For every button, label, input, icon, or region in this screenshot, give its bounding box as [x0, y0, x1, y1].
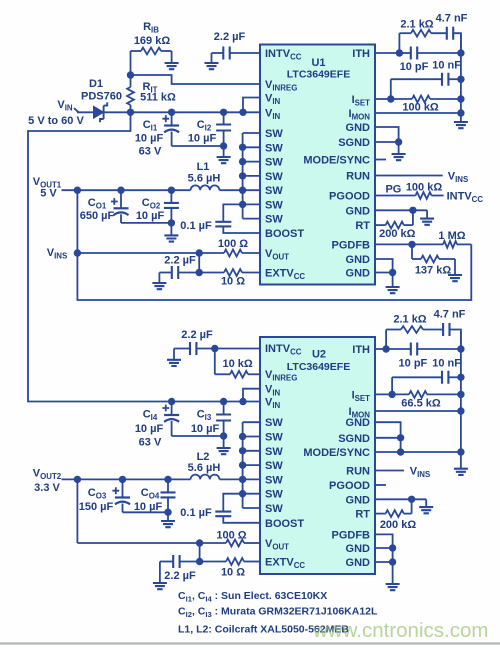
wire RUN U2 — [375, 470, 404, 472]
resistor RIT vertical — [130, 75, 132, 87]
capacitor 10pF — [399, 52, 411, 54]
node CO3 top — [119, 476, 126, 483]
svg-text:D1: D1 — [89, 78, 103, 90]
capacitor 2.2uF extvcc U2 — [160, 561, 174, 563]
SW rail U2 — [242, 422, 244, 508]
capacitor 2.2uF INTVCC U2 — [174, 348, 190, 350]
svg-text:4.7 nF: 4.7 nF — [434, 309, 466, 321]
resistor PG 100k — [375, 195, 416, 197]
capacitor CI4 10uF 63V electrolytic — [171, 402, 173, 415]
resistor RIB 169k — [131, 50, 142, 52]
wire VOUT2 down to VOUT row — [76, 479, 78, 543]
resistor 10k VINREG U2 — [214, 349, 216, 375]
svg-text:511 kΩ: 511 kΩ — [140, 92, 176, 104]
wire node up to RIB — [130, 51, 132, 75]
svg-text:SW: SW — [265, 157, 283, 169]
svg-text:SW: SW — [265, 489, 283, 501]
svg-text:5.6 µH: 5.6 µH — [188, 462, 221, 474]
wire IMON — [375, 112, 461, 114]
node CO1 top — [117, 187, 124, 194]
wire VIN to diode — [77, 111, 94, 113]
ground 2.2uF U2 — [173, 349, 175, 360]
ground comp rail U2 — [460, 452, 462, 469]
node CO gnd U2 — [164, 509, 171, 516]
left VIN drop rail to U2 — [28, 112, 260, 401]
wire CO bottoms — [121, 222, 171, 224]
node CI4 top — [168, 398, 175, 405]
svg-text:SW: SW — [265, 199, 283, 211]
capacitor CO1 650uF electrolytic — [120, 190, 122, 208]
svg-text:ITH: ITH — [352, 344, 370, 356]
capacitor CI2 10uF — [223, 112, 225, 124]
node input cap gnd U2 — [220, 432, 227, 439]
ground input caps — [223, 146, 225, 157]
svg-text:RT: RT — [355, 509, 370, 521]
node GND2 RT U2 — [408, 496, 415, 503]
svg-text:10 µF: 10 µF — [188, 133, 217, 145]
svg-text:BOOST: BOOST — [265, 228, 304, 240]
svg-text:ITH: ITH — [352, 48, 370, 60]
svg-text:10 µF: 10 µF — [135, 133, 164, 145]
ground 2.2uF extvcc U1 — [158, 273, 160, 284]
ground GND2 U1 — [426, 210, 428, 218]
svg-text:SW: SW — [265, 128, 283, 140]
capacitor CI1 10uF 63V electrolytic — [171, 112, 173, 125]
node CI2 top — [220, 109, 227, 116]
svg-text:SW: SW — [265, 432, 283, 444]
svg-text:150 µF: 150 µF — [79, 501, 114, 513]
node CI1 top — [168, 109, 175, 116]
svg-text:10 kΩ: 10 kΩ — [222, 358, 252, 370]
wire GND3 GND4 U1 — [375, 259, 393, 273]
inductor L2 5.6uH — [191, 475, 220, 480]
node CO2 top — [168, 187, 175, 194]
svg-text:SGND: SGND — [338, 137, 370, 149]
svg-text:SW: SW — [265, 503, 283, 515]
wire VIN upper pin step — [243, 98, 260, 113]
node SGND — [395, 138, 402, 145]
svg-text:RT: RT — [355, 220, 370, 232]
svg-text:SW: SW — [265, 171, 283, 183]
svg-text:100 kΩ: 100 kΩ — [402, 102, 439, 114]
svg-text:GND: GND — [346, 205, 371, 217]
svg-text:SW: SW — [265, 474, 283, 486]
svg-text:PDS760: PDS760 — [81, 91, 122, 103]
svg-text:1 MΩ: 1 MΩ — [438, 230, 465, 242]
wire PGDFB U1 — [375, 243, 412, 245]
svg-text:U1: U1 — [311, 57, 325, 69]
svg-text:LTC3649EFE: LTC3649EFE — [287, 69, 350, 81]
svg-text:SGND: SGND — [338, 433, 370, 445]
svg-text:BOOST: BOOST — [265, 518, 304, 530]
svg-text:10 µF: 10 µF — [191, 423, 220, 435]
capacitor 10nF U2 — [392, 376, 442, 378]
VIN input tick — [74, 108, 79, 112]
node PGDFB — [408, 241, 415, 248]
node VIN step U2 — [239, 398, 246, 405]
wire CI4 CI3 bottoms — [172, 435, 224, 437]
svg-text:GND: GND — [346, 254, 371, 266]
resistor 137k — [411, 244, 413, 259]
svg-text:GND: GND — [346, 417, 371, 429]
wire CI1 CI2 bottoms — [172, 145, 224, 147]
comp rail U1 — [460, 33, 462, 113]
svg-text:MODE/SYNC: MODE/SYNC — [303, 447, 370, 459]
capacitor CO2 10uF — [170, 190, 172, 203]
wire diode to VIN node — [104, 111, 131, 113]
node INTVCC U2 — [211, 345, 218, 352]
ground GND2 U2 — [425, 499, 427, 507]
svg-text:SW: SW — [265, 446, 283, 458]
node EXTVCC U2 — [196, 558, 203, 565]
svg-text:SW: SW — [265, 185, 283, 197]
wire VOUT row U2 — [77, 542, 199, 544]
svg-text:63 V: 63 V — [139, 437, 162, 449]
comp rail U2 — [460, 331, 462, 452]
svg-text:4.7 nF: 4.7 nF — [436, 13, 468, 25]
ground SGND U1 — [398, 142, 400, 154]
svg-text:SW: SW — [265, 142, 283, 154]
wire GND3 U2 — [375, 547, 393, 549]
svg-text:GND: GND — [346, 494, 371, 506]
ground GND4 U1 — [392, 273, 394, 288]
svg-text:137 kΩ: 137 kΩ — [415, 265, 452, 277]
node VOUT1 sense — [74, 187, 81, 194]
svg-text:3.3 V: 3.3 V — [34, 482, 60, 494]
wire MODE row U2 — [375, 451, 461, 453]
capacitor 10pF U2 — [386, 348, 411, 350]
svg-text:10 Ω: 10 Ω — [221, 567, 245, 579]
ground output caps U1 — [170, 223, 172, 236]
svg-text:PGOOD: PGOOD — [329, 191, 370, 203]
ground comp rail U1 — [460, 113, 462, 122]
node MODE U2 — [397, 448, 404, 455]
capacitor 2.2uF INTVCC U1 — [212, 52, 224, 54]
resistor 10 ohm U2 — [200, 561, 226, 563]
svg-text:2.2 µF: 2.2 µF — [164, 255, 196, 267]
svg-text:10 µF: 10 µF — [136, 210, 165, 222]
resistor 100k ISET U1 — [391, 98, 412, 100]
node VINS 100ohm — [196, 249, 203, 256]
stub PGOOD U2 — [375, 484, 386, 486]
svg-text:RUN: RUN — [346, 466, 370, 478]
resistor RT 200k U2 — [375, 513, 386, 515]
wire VIN upper pin step U2 — [243, 389, 260, 402]
node ITH U2 — [382, 345, 389, 352]
svg-text:100 kΩ: 100 kΩ — [406, 182, 443, 194]
wire RUN U1 — [375, 175, 443, 177]
svg-text:2.2 µF: 2.2 µF — [181, 329, 213, 341]
svg-text:SW: SW — [265, 460, 283, 472]
node VOUT 100ohm U2 — [196, 539, 203, 546]
wire GND4 U2 — [375, 561, 393, 563]
svg-text:66.5 kΩ: 66.5 kΩ — [401, 398, 441, 410]
node CO4 top — [164, 476, 171, 483]
svg-text:10 pF: 10 pF — [399, 358, 428, 370]
capacitor CO4 10uF — [167, 479, 169, 492]
node R divider — [127, 71, 134, 78]
wire ISET — [375, 98, 391, 100]
wire GND2 U2 — [375, 498, 426, 500]
wire VINREG from divider — [131, 75, 261, 84]
ground input caps U2 — [223, 436, 225, 448]
capacitor 2.2uF extvcc U1 — [159, 272, 171, 274]
svg-text:650 µF: 650 µF — [80, 210, 115, 222]
node ITH — [396, 49, 403, 56]
node ISET U2 — [388, 391, 395, 398]
ground 137k — [454, 259, 456, 275]
capacitor 10nF U1 — [391, 78, 443, 80]
svg-text:5.6 µH: 5.6 µH — [188, 173, 221, 185]
resistor RT 200k U1 — [386, 222, 404, 229]
svg-text:5 V: 5 V — [40, 188, 57, 200]
wire GND2 U1 — [375, 209, 427, 211]
resistor 2.1k + cap 4.7nF branch U2 — [385, 330, 387, 350]
capacitor CI3 10uF — [223, 402, 225, 415]
svg-text:GND: GND — [346, 557, 371, 569]
node VOUT2 sense — [74, 476, 81, 483]
svg-text:www.cntronics.com: www.cntronics.com — [312, 619, 488, 642]
node CI3 top — [220, 398, 227, 405]
svg-text:MODE/SYNC: MODE/SYNC — [303, 155, 370, 167]
svg-text:U2: U2 — [312, 349, 326, 361]
IC U1 LTC3649EFE body — [260, 45, 375, 285]
resistor 2.1k + cap 4.7nF branch U1 — [398, 33, 400, 53]
svg-text:100 Ω: 100 Ω — [216, 530, 246, 542]
VOUT1 rail — [62, 189, 191, 191]
resistor 1M — [412, 243, 443, 245]
feedback loop wire to VINS — [77, 244, 471, 300]
ground 2.2uF extvcc U2 — [159, 562, 161, 584]
resistor 10 ohm U1 — [199, 272, 224, 274]
resistor 100 ohm U2 — [200, 542, 226, 544]
node MODE rail U2 — [457, 448, 464, 455]
node VIN — [127, 109, 134, 116]
svg-text:10 µF: 10 µF — [134, 501, 163, 513]
svg-text:PG: PG — [385, 184, 401, 196]
svg-text:2.1 kΩ: 2.1 kΩ — [400, 19, 433, 31]
wire PGDFB U2 — [375, 534, 393, 548]
bottom edge line — [0, 642, 500, 644]
wire ITH U2 — [375, 348, 386, 350]
svg-text:L1: L1 — [197, 161, 210, 173]
svg-text:PGDFB: PGDFB — [332, 529, 371, 541]
svg-text:10 nF: 10 nF — [432, 358, 461, 370]
svg-text:GND: GND — [346, 268, 371, 280]
svg-text:10 nF: 10 nF — [432, 60, 461, 72]
wire GND SGND U2 — [375, 422, 401, 438]
resistor 66.5k U2 — [392, 393, 409, 395]
resistor 100 ohm U1 — [199, 252, 224, 254]
SW rail U1 — [242, 133, 244, 219]
svg-text:2.2 µF: 2.2 µF — [164, 570, 196, 582]
ground output caps U2 — [167, 512, 169, 521]
capacitor 0.1uF boost U2 — [215, 512, 231, 517]
svg-text:10 pF: 10 pF — [400, 61, 429, 73]
svg-text:2.1 kΩ: 2.1 kΩ — [393, 314, 426, 326]
svg-text:PGDFB: PGDFB — [332, 239, 371, 251]
node EXTVCC U1 — [196, 269, 203, 276]
svg-text:200 kΩ: 200 kΩ — [380, 519, 417, 531]
node CO ground — [168, 219, 175, 226]
node ISET — [387, 95, 394, 102]
svg-text:GND: GND — [346, 543, 371, 555]
svg-text:CI1​, CI4​ : Sun Elect. 63CE10: CI1​, CI4​ : Sun Elect. 63CE10KX — [178, 590, 327, 604]
node GND3 U2 — [389, 544, 396, 551]
stub MODE/SYNC U1 — [375, 159, 386, 161]
wire GND SGND U1 — [375, 127, 399, 142]
svg-text:PGOOD: PGOOD — [329, 480, 370, 492]
wire CO bottoms U2 — [123, 511, 169, 513]
svg-text:0.1 µF: 0.1 µF — [180, 507, 212, 519]
svg-text:RUN: RUN — [346, 171, 370, 183]
capacitor CO3 150uF electrolytic — [122, 479, 124, 497]
svg-text:SW: SW — [265, 214, 283, 226]
wire VINS row — [77, 252, 199, 254]
svg-text:10 Ω: 10 Ω — [221, 276, 245, 288]
wire ISET U2 — [375, 393, 392, 395]
IC U2 LTC3649EFE body — [260, 337, 375, 574]
svg-text:5 V to 60 V: 5 V to 60 V — [28, 115, 84, 127]
node GND4 U2 — [389, 558, 396, 565]
capacitor 0.1uF boost U1 — [215, 222, 231, 227]
svg-text:0.1 µF: 0.1 µF — [180, 220, 212, 232]
node comp rail top — [457, 49, 464, 56]
wire IMON U2 — [375, 410, 461, 412]
diode D1 PDS760 — [94, 106, 104, 118]
svg-text:LTC3649EFE: LTC3649EFE — [287, 361, 350, 373]
node SGND U2 — [397, 434, 404, 441]
svg-text:200 kΩ: 200 kΩ — [379, 228, 416, 240]
wire ITH — [375, 52, 399, 54]
node VINS — [74, 249, 81, 256]
ground RIB — [171, 51, 173, 63]
wire VIN rail to U1 — [131, 111, 261, 113]
inductor L1 5.6uH — [191, 185, 220, 190]
svg-text:SW: SW — [265, 417, 283, 429]
ground GND pins U2 — [392, 562, 394, 584]
node CI2 ground — [220, 142, 227, 149]
svg-text:63 V: 63 V — [139, 146, 162, 158]
svg-text:100 Ω: 100 Ω — [218, 238, 248, 250]
node GND4 — [389, 269, 396, 276]
svg-text:169 kΩ: 169 kΩ — [134, 35, 171, 47]
svg-text:GND: GND — [346, 122, 371, 134]
ground 2.2uF INTVCC — [211, 53, 213, 63]
wire VOUT1 down to VINS — [76, 190, 78, 253]
svg-text:10 µF: 10 µF — [135, 423, 164, 435]
node VIN step — [239, 109, 246, 116]
svg-text:2.2 µF: 2.2 µF — [214, 31, 246, 43]
VOUT2 rail — [62, 478, 191, 480]
node GND2 RT — [409, 207, 416, 214]
